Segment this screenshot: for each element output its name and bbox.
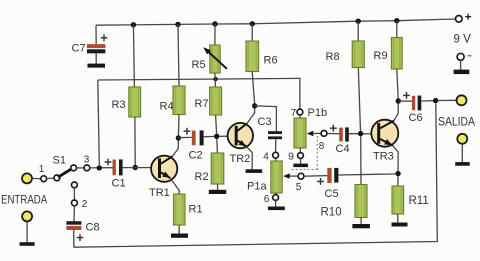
wire top supply rail V+	[96, 19, 455, 25]
wire bottom feedback bus	[74, 103, 438, 247]
wire C7 branch from rail	[95, 25, 97, 44]
wire R4 to collector node	[177, 115, 180, 137]
svg-text:4: 4	[263, 152, 269, 163]
wire TR1 collector	[172, 141, 178, 157]
wire R8 to base node	[358, 68, 360, 132]
ground C7	[88, 64, 106, 68]
junction R4/C2/TR1 collector node	[176, 135, 181, 140]
junction C4/R8/R10/TR3 base node	[358, 131, 363, 136]
resistor R6	[246, 41, 259, 72]
svg-text:R4: R4	[160, 101, 174, 113]
wire rail to R5	[214, 24, 216, 45]
wire feedback drop to input node	[98, 80, 100, 165]
wire pin7 to P1b	[299, 115, 301, 118]
wire pin3 to C1	[90, 167, 113, 169]
capacitor C8	[66, 221, 81, 225]
svg-text:3: 3	[84, 155, 90, 166]
wire rail to R3	[133, 25, 134, 87]
junction C2/R2/R7/TR2 base node	[214, 134, 219, 139]
svg-text:R5: R5	[192, 59, 206, 71]
terminal ENTRADA input jack	[22, 173, 32, 183]
pin 7	[297, 109, 303, 115]
svg-text:P1b: P1b	[308, 107, 328, 119]
wire pin9 to ground	[300, 158, 302, 163]
junction TR3 emitter/R11/C5 node	[395, 171, 400, 176]
wire rail to R8	[357, 21, 359, 41]
P1b wiper arrow	[312, 132, 321, 134]
wire base node to R2	[216, 139, 219, 154]
wire R9 to collector node	[397, 69, 398, 99]
resistor R3	[129, 87, 141, 117]
ground R2	[209, 190, 227, 194]
wire TR2 emitter to ground	[246, 147, 252, 170]
junction R9/TR3 collector/C6 node	[396, 98, 401, 103]
capacitor C2	[184, 128, 191, 135]
wire collector node to C6	[398, 100, 412, 102]
wire pin6 to ground	[275, 200, 277, 206]
wire rail to R4	[178, 24, 179, 86]
junction output node	[433, 98, 438, 103]
svg-text:TR1: TR1	[149, 187, 170, 199]
gang dashed link P1a/P1b	[291, 136, 318, 170]
wire upper contact to pin 3	[77, 167, 85, 169]
wire R11 to ground	[397, 214, 399, 223]
pin 9	[298, 153, 304, 159]
wire base node to TR2	[219, 135, 234, 137]
wire TR2 collector	[247, 108, 255, 124]
resistor R9	[391, 38, 402, 70]
resistor R1	[174, 194, 186, 225]
wire C1 to TR1 base	[122, 167, 159, 169]
svg-text:C1: C1	[112, 178, 126, 190]
svg-text:8: 8	[319, 141, 325, 152]
wire collector node to C3	[255, 106, 277, 131]
pin 6	[273, 195, 279, 201]
resistor R10	[355, 185, 367, 218]
pin 3	[84, 165, 90, 171]
wire input to pin 1	[32, 177, 41, 179]
junction top rail node A	[131, 22, 136, 27]
wire pin1 to pivot	[47, 177, 54, 180]
P1a wiper arrow	[289, 175, 298, 177]
capacitor C5	[317, 178, 324, 185]
ground R10	[352, 224, 370, 228]
ground ENTRADA	[20, 242, 35, 246]
switch S1 lever	[58, 169, 71, 177]
wire C7 to ground	[95, 53, 97, 63]
wire R2 to ground	[217, 184, 219, 190]
wire lower contact to pin 2	[73, 188, 75, 200]
transistor TR2	[228, 123, 253, 148]
wire C5 to TR3 emitter node	[338, 174, 398, 175]
svg-text:R7: R7	[195, 98, 209, 110]
battery negative bar	[454, 70, 470, 75]
wire output node to jack	[438, 99, 456, 101]
svg-text:R2: R2	[195, 171, 209, 183]
svg-text:1: 1	[39, 164, 45, 175]
svg-text:C8: C8	[86, 222, 100, 234]
pin 2	[72, 200, 78, 206]
resistor R2	[211, 153, 224, 184]
battery negative terminal	[457, 53, 464, 60]
svg-text:SALIDA: SALIDA	[438, 115, 475, 129]
resistor R11	[392, 186, 404, 214]
terminal ENTRADA ground jack	[22, 211, 32, 221]
potentiometer P1b	[294, 118, 306, 148]
capacitor C6	[403, 92, 410, 99]
transistor TR3	[371, 120, 398, 147]
resistor R4	[173, 86, 185, 115]
wire P1a to pin 6	[275, 193, 277, 195]
wire R5 to R7	[214, 73, 217, 87]
svg-text:9 V: 9 V	[454, 34, 472, 46]
svg-text:5: 5	[296, 182, 302, 193]
svg-text:9: 9	[288, 152, 294, 163]
junction top rail node C	[212, 21, 217, 26]
svg-text:6: 6	[264, 194, 270, 205]
junction top rail node D	[250, 21, 255, 26]
ground P1a	[268, 207, 285, 211]
capacitor C1	[105, 159, 112, 166]
wire feedback line	[98, 78, 300, 109]
wire R3 to base node	[134, 117, 136, 165]
wire TR1 emitter	[170, 178, 179, 194]
svg-text:R9: R9	[374, 50, 388, 62]
wire emitter node to R11	[397, 176, 399, 186]
wire C6 to output node	[421, 100, 433, 102]
svg-text:C2: C2	[189, 150, 203, 162]
wire R6 to TR2 collector node	[252, 72, 254, 104]
battery positive terminal +	[456, 15, 463, 22]
wire pin2 to C8	[73, 206, 75, 221]
junction top rail node B	[175, 22, 180, 27]
resistor R5 (adjustable)	[210, 45, 220, 73]
svg-text:C3: C3	[258, 116, 272, 128]
terminal SALIDA ground jack	[457, 134, 467, 144]
wire R1 to ground	[178, 225, 180, 234]
terminal SALIDA output jack	[457, 95, 467, 105]
wire C2 to TR2 base node	[204, 135, 214, 137]
wire R7 to base node	[216, 115, 217, 134]
potentiometer P1a	[271, 161, 282, 193]
wire pin5 to C5	[304, 175, 327, 178]
svg-text:7: 7	[291, 108, 297, 119]
svg-text:TR2: TR2	[230, 153, 251, 165]
wire TR3 emitter	[393, 146, 398, 171]
switch S1 upper throw contact	[71, 165, 77, 171]
ground SALIDA	[455, 162, 470, 166]
svg-text:C7: C7	[72, 43, 86, 55]
wire C3 to pin 4	[275, 139, 277, 152]
junction top rail node F	[394, 18, 399, 23]
ground TR2 emitter	[246, 169, 263, 173]
svg-text:TR3: TR3	[373, 151, 394, 163]
wire P1b to pin 9	[299, 148, 301, 153]
wire battery negative stem	[460, 60, 462, 69]
wire C8 to bottom bus	[73, 230, 75, 247]
svg-text:R3: R3	[112, 99, 126, 111]
junction top rail node E	[356, 19, 361, 24]
capacitor C4	[330, 125, 337, 132]
switch S1 pivot	[54, 175, 60, 181]
wire rail to R6	[251, 24, 253, 41]
wire rail to R9	[396, 21, 398, 38]
svg-text:C5: C5	[325, 188, 339, 200]
svg-text:S1: S1	[53, 155, 66, 167]
svg-text:R10: R10	[321, 207, 342, 219]
svg-text:P1a: P1a	[247, 181, 267, 193]
svg-text:C6: C6	[409, 112, 423, 124]
wire C4 to TR3 base node	[349, 133, 378, 135]
junction input node	[97, 165, 102, 170]
svg-text:2: 2	[82, 199, 88, 210]
pin 1	[41, 176, 47, 182]
R5 adjustment arrow	[206, 49, 227, 69]
pin 5	[298, 173, 304, 179]
svg-text:R11: R11	[409, 195, 429, 207]
pin 8	[321, 131, 327, 137]
wire R10 to ground	[360, 218, 362, 225]
capacitor C3	[268, 131, 282, 134]
wire pin4 to P1a	[275, 158, 277, 161]
ground R1	[171, 234, 188, 238]
switch S1 lower throw contact	[72, 182, 78, 188]
ground P1b	[293, 164, 308, 168]
capacitor C7	[101, 34, 108, 41]
junction R6/C3/TR2 collector node	[252, 103, 257, 108]
wire TR3 collector	[394, 104, 398, 121]
wire output ground stem	[461, 144, 463, 162]
junction C1/R3/TR1 base node	[133, 165, 138, 170]
svg-text:R8: R8	[326, 51, 340, 63]
junction feedback / R5-R7 node	[213, 77, 217, 81]
wire base node to R10	[360, 136, 362, 184]
svg-text:R6: R6	[264, 55, 278, 67]
svg-text:ENTRADA: ENTRADA	[1, 193, 47, 207]
pin 4	[273, 152, 279, 158]
resistor R7	[210, 87, 222, 115]
svg-text:R1: R1	[189, 204, 203, 216]
wire pin8 to C4	[327, 133, 339, 135]
wire input ground stem	[26, 221, 28, 242]
wire node to C2	[178, 136, 191, 138]
resistor R8	[352, 41, 364, 68]
transistor TR1	[151, 156, 177, 182]
svg-text:C4: C4	[336, 143, 350, 155]
ground R11	[392, 223, 408, 227]
